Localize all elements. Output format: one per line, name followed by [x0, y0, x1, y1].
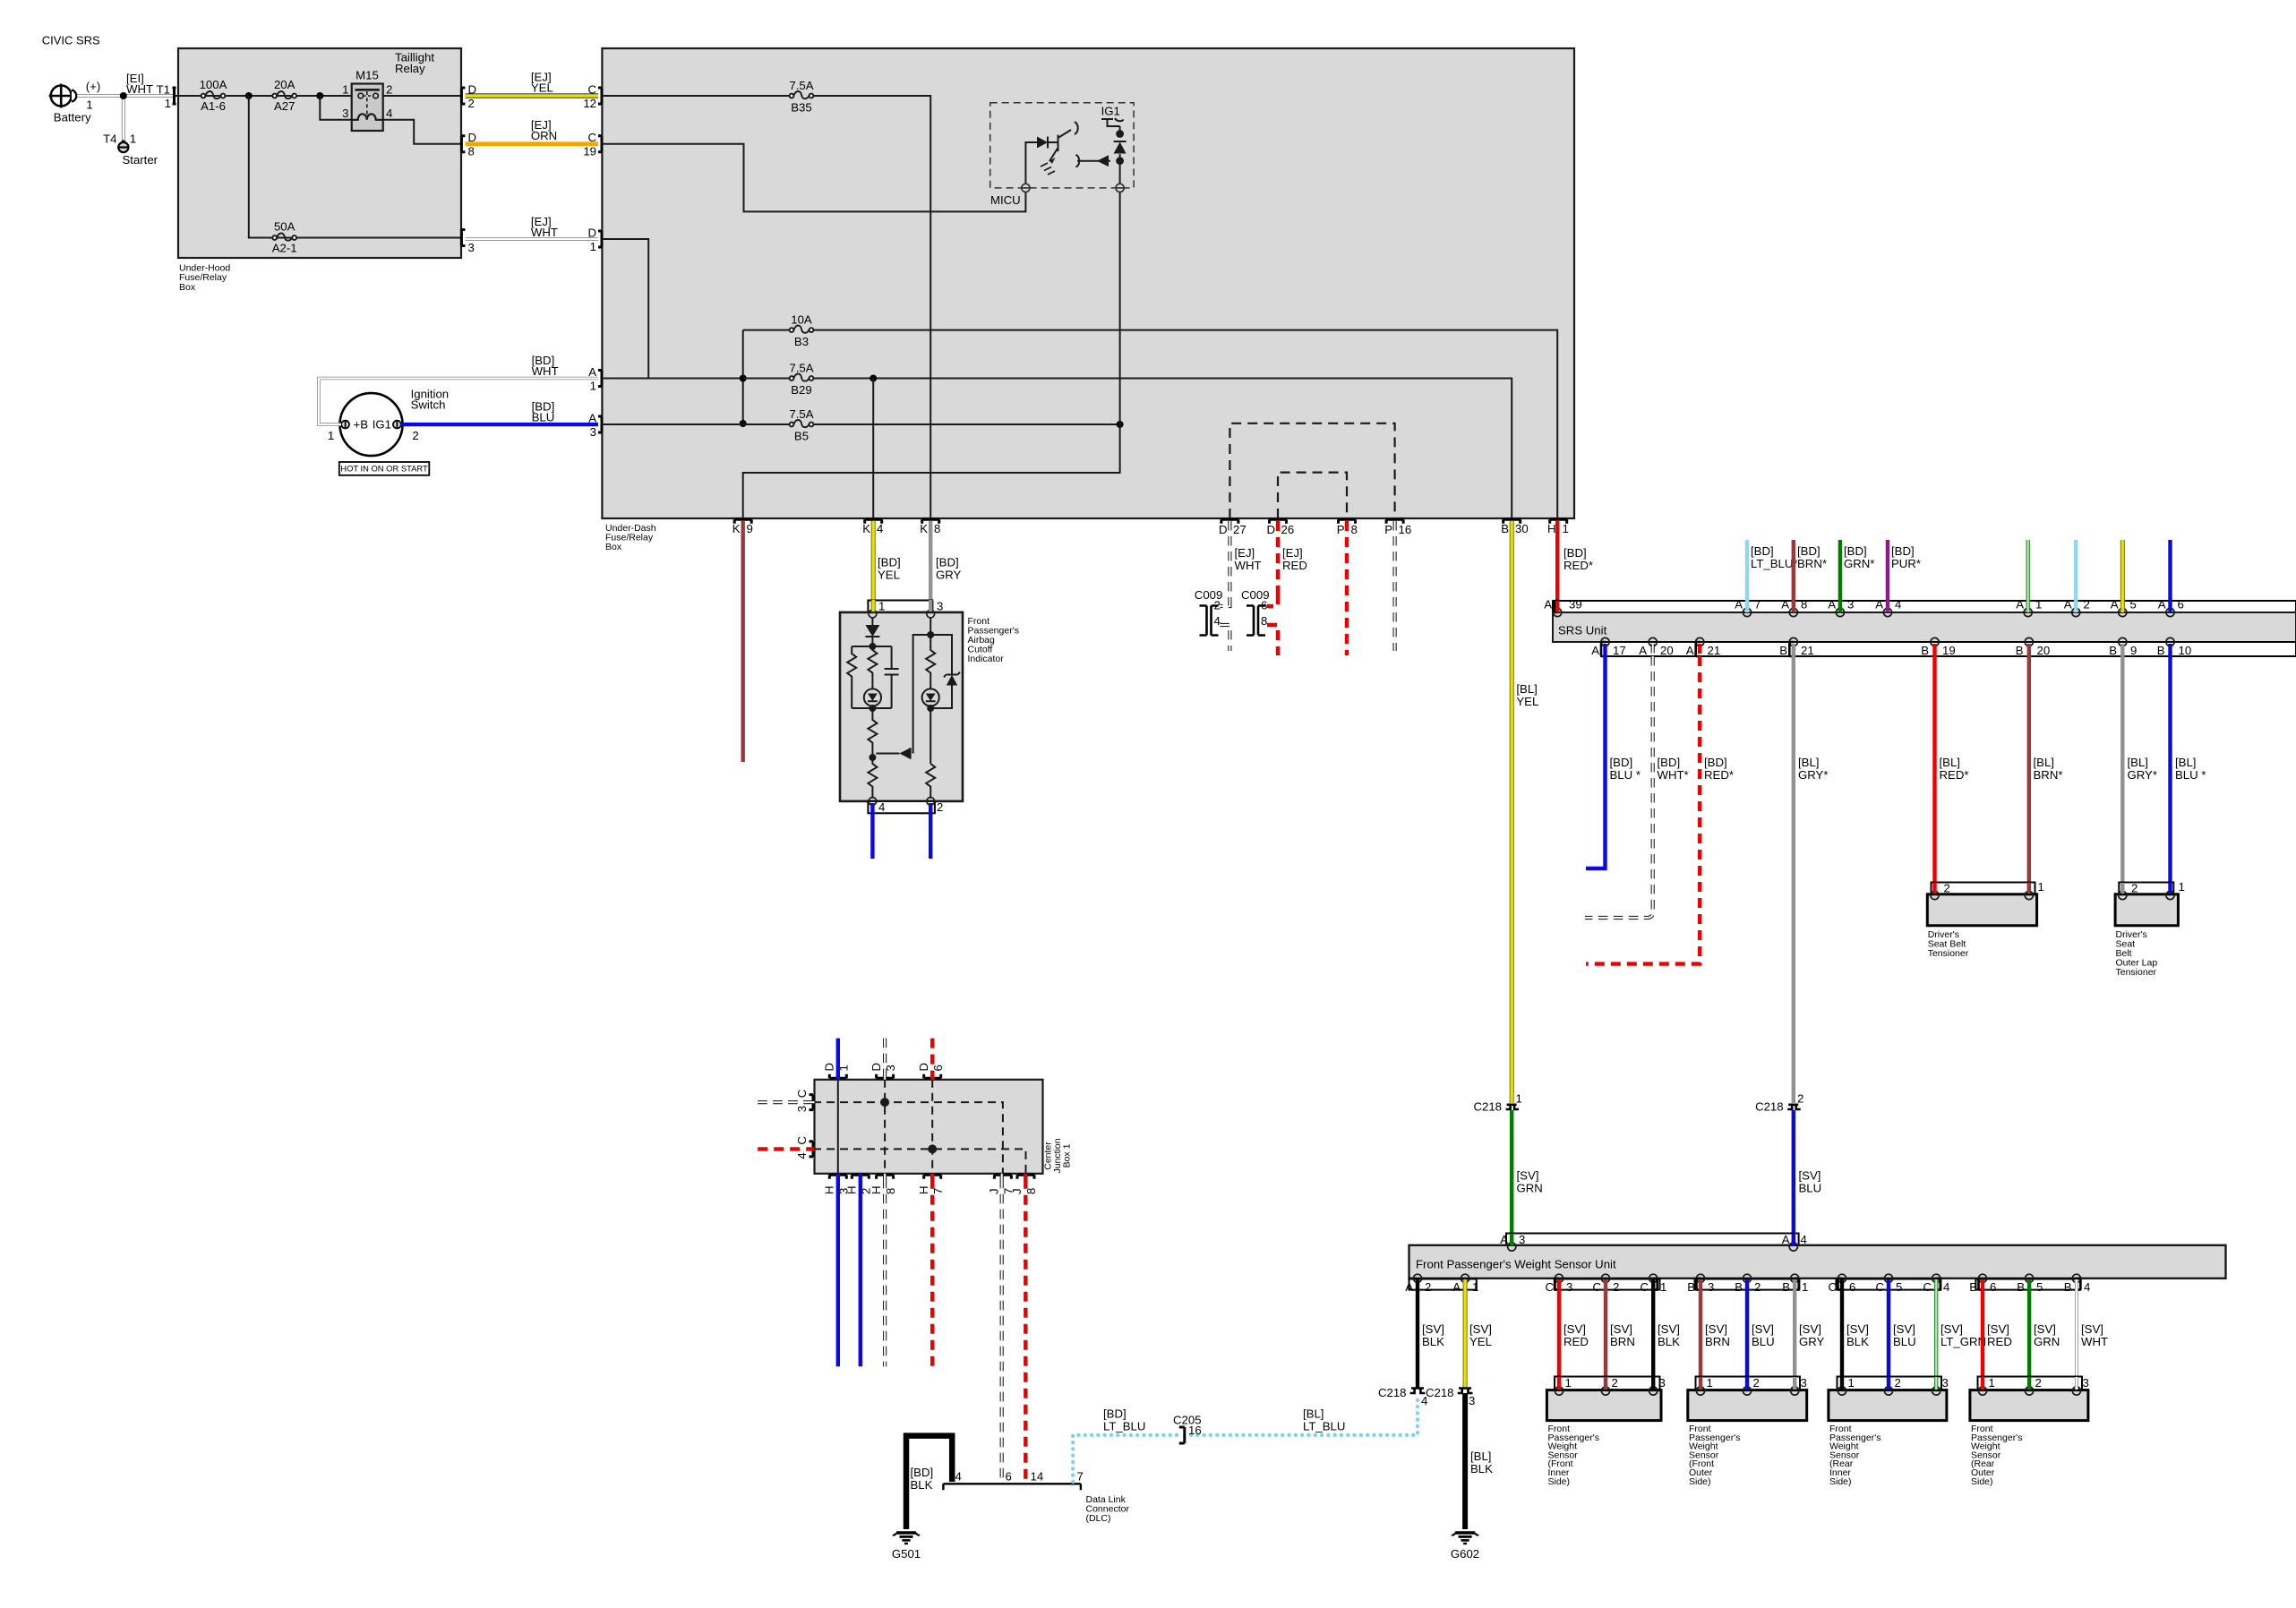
svg-text:C218: C218	[1473, 1099, 1502, 1113]
wire B4 [SV] WHT	[2075, 1290, 2078, 1390]
svg-text:[BD]: [BD]	[936, 556, 959, 569]
connector J8 (cjb bottom)	[1017, 1175, 1034, 1179]
pin C1	[1649, 1274, 1658, 1282]
svg-text:[SV]: [SV]	[1517, 1169, 1539, 1183]
cjb internal solid D1-H3	[837, 1080, 839, 1174]
node A1/B29 junction	[740, 375, 747, 382]
svg-text:2: 2	[468, 97, 475, 110]
wires through sensor strips	[1557, 1377, 1561, 1390]
svg-text:[BL]: [BL]	[2034, 756, 2054, 769]
svg-text:Battery: Battery	[54, 111, 91, 124]
svg-text:A: A	[1735, 598, 1743, 612]
wire A3 grn through strip	[1838, 601, 1842, 612]
wire A17 blue through SRS bottom strip	[1603, 644, 1606, 657]
svg-text:C: C	[1923, 1280, 1932, 1294]
svg-text:[BD]: [BD]	[1891, 544, 1915, 558]
svg-text:G602: G602	[1451, 1547, 1479, 1561]
svg-text:1: 1	[590, 380, 596, 393]
wsu bottom connector strip B6B5B4	[1975, 1279, 2080, 1290]
wire B3 row 10A to H1	[743, 330, 1557, 518]
wire D27 [EJ] WHT (hollow dash)	[1228, 521, 1231, 598]
fuse 7.5A B5	[790, 420, 814, 427]
svg-text:H: H	[917, 1185, 930, 1194]
svg-text:LT_BLU*: LT_BLU*	[1751, 557, 1798, 570]
connector C12 (under-dash in)	[598, 88, 602, 104]
svg-text:LT_BLU: LT_BLU	[1103, 1419, 1145, 1433]
svg-text:[SV]: [SV]	[1705, 1322, 1727, 1336]
svg-text:[BD]: [BD]	[878, 556, 901, 569]
svg-text:[BD]: [BD]	[1564, 546, 1587, 560]
svg-text:B: B	[2017, 1280, 2025, 1294]
driver's seat belt outer lap tensioner connector strip	[2119, 883, 2173, 894]
svg-text:[SV]: [SV]	[1610, 1322, 1632, 1336]
svg-text:B: B	[1969, 1280, 1977, 1294]
svg-text:[BD]: [BD]	[1751, 544, 1774, 558]
wire K8 gray into indicator strip	[929, 600, 932, 612]
svg-text:2: 2	[1753, 1376, 1760, 1390]
SRS unit body	[1553, 612, 2296, 642]
svg-text:C: C	[587, 131, 596, 144]
svg-text:A2-1: A2-1	[272, 242, 297, 255]
connector C4 (cjb left)	[810, 1142, 814, 1157]
svg-text:9: 9	[747, 522, 753, 535]
wire red dash J8 down to DLC pin14	[1024, 1179, 1027, 1482]
wire blue stub pin4	[870, 813, 874, 859]
svg-text:1: 1	[342, 83, 348, 97]
pin C6	[1838, 1274, 1846, 1282]
svg-text:[SV]: [SV]	[1799, 1169, 1821, 1183]
svg-text:Side): Side)	[1829, 1476, 1852, 1487]
svg-text:PUR*: PUR*	[1891, 557, 1921, 570]
svg-text:Side): Side)	[1548, 1476, 1571, 1487]
svg-text:P: P	[1384, 523, 1392, 536]
svg-text:27: 27	[1233, 523, 1247, 536]
svg-text:GRN: GRN	[1517, 1181, 1543, 1194]
wire A3 row 7.5A B5	[602, 423, 1120, 425]
wire B5 [SV] GRN	[2027, 1290, 2031, 1390]
svg-text:Box: Box	[179, 282, 196, 293]
svg-text:GRY: GRY	[936, 568, 962, 581]
svg-text:B: B	[1687, 1280, 1695, 1294]
driver's seat belt tensioner box	[1927, 894, 2036, 926]
svg-text:A: A	[2064, 598, 2072, 612]
svg-text:4: 4	[386, 107, 392, 120]
svg-text:2: 2	[386, 83, 392, 97]
svg-text:3: 3	[937, 600, 943, 613]
wire [SV] BLU C218-2 to WSU A4	[1792, 1110, 1795, 1236]
svg-text:6: 6	[931, 1065, 945, 1071]
wire A17 [BD] BLU* L-stub	[1586, 656, 1606, 868]
wire C19 to MICU pin	[602, 144, 1025, 212]
svg-text:3: 3	[1659, 1376, 1666, 1390]
svg-text:+B: +B	[354, 418, 369, 432]
svg-text:YEL: YEL	[531, 81, 553, 95]
wire [EJ] WHT D3 to D1	[466, 237, 599, 241]
svg-text:10: 10	[2179, 644, 2192, 657]
fuse 100A A1-6	[201, 91, 226, 98]
connector D6 (cjb top)	[924, 1074, 941, 1079]
svg-text:[EJ]: [EJ]	[1282, 546, 1303, 560]
wire A4 [BD] PUR* stub	[1886, 540, 1889, 601]
svg-text:B: B	[2157, 644, 2165, 657]
svg-text:[SV]: [SV]	[1564, 1322, 1586, 1336]
svg-text:A: A	[1781, 598, 1789, 612]
wire relay pin4 to D8	[383, 120, 461, 144]
svg-text:4: 4	[1214, 614, 1221, 628]
wire A5 yel through strip	[2120, 601, 2125, 612]
svg-text:1: 1	[590, 240, 596, 253]
wire A8 [BD] BRN* stub	[1792, 540, 1795, 601]
dashed jumper inner D26-P8	[1278, 473, 1347, 518]
svg-text:5: 5	[2130, 598, 2137, 612]
wire B9 gray through strip	[2120, 644, 2124, 657]
indicator internals right chain	[913, 618, 960, 799]
wire A6 blu through strip	[2168, 601, 2172, 612]
svg-text:8: 8	[468, 145, 475, 158]
pin A4 circle	[1789, 1243, 1797, 1251]
sensor 3 connector strip	[1838, 1377, 1942, 1390]
connector C19	[598, 136, 602, 152]
svg-text:3: 3	[1801, 1376, 1807, 1390]
svg-text:8: 8	[1351, 523, 1358, 536]
svg-text:4: 4	[955, 1470, 962, 1484]
svg-text:3: 3	[468, 241, 475, 254]
svg-text:3: 3	[1469, 1394, 1475, 1407]
wire A5 yellow stub	[2120, 540, 2125, 601]
svg-text:1: 1	[328, 429, 334, 442]
svg-text:A: A	[1875, 598, 1883, 612]
wire ignition IG1 to A3 [BD] BLU	[401, 423, 598, 426]
svg-text:10A: 10A	[791, 312, 812, 326]
wire [BD] BLK thick ground path	[906, 1436, 952, 1529]
svg-text:2: 2	[1612, 1376, 1618, 1390]
wire A2 light blue stub	[2074, 540, 2078, 601]
svg-text:K: K	[862, 522, 870, 535]
svg-text:B: B	[1921, 644, 1929, 657]
indicator internals left chain	[847, 618, 898, 799]
svg-text:[BL]: [BL]	[1798, 756, 1819, 769]
wire K9 [BD] RED* (maroon, dangling)	[741, 521, 745, 762]
front passenger's weight sensor (rear inner side) box	[1829, 1390, 1947, 1421]
indicator bottom connector strip	[868, 801, 935, 813]
fuse 7.5A B29	[790, 373, 814, 381]
wire A20 [BD] WHT* dashed L-stub	[1585, 656, 1653, 918]
driver's seat belt outer lap tensioner box	[2115, 894, 2178, 926]
wires through WSU bottom strips	[1416, 1279, 1419, 1291]
svg-text:B: B	[1501, 522, 1509, 535]
svg-text:4: 4	[1895, 598, 1901, 612]
pin A1	[1461, 1274, 1469, 1282]
svg-text:2: 2	[1425, 1280, 1431, 1294]
svg-text:BLU: BLU	[532, 410, 555, 423]
connector K4	[865, 519, 882, 524]
wire C12 to fuse B35 to K8	[602, 96, 930, 518]
wire overlay segments crossing connector strips	[809, 600, 2171, 1390]
svg-text:5: 5	[1896, 1280, 1902, 1294]
wsu bottom connector strip C3C2C1	[1555, 1279, 1660, 1290]
wire blue H2 down	[859, 1179, 862, 1367]
wire blue H3 down	[836, 1179, 840, 1367]
bottom pin A20	[1649, 637, 1657, 646]
pin A39 circle	[1554, 608, 1562, 616]
wire C1 [SV] BLK	[1651, 1290, 1655, 1390]
fuse 50A A2-1	[272, 233, 296, 240]
svg-text:7.5A: 7.5A	[789, 79, 813, 92]
svg-text:H: H	[870, 1185, 883, 1194]
under-dash fuse/relay box	[602, 48, 1574, 518]
svg-text:BLU: BLU	[1752, 1335, 1775, 1348]
wire P8 red dash (dangling)	[1345, 521, 1349, 655]
svg-text:A: A	[2111, 598, 2119, 612]
wire C6 [SV] BLK	[1840, 1290, 1844, 1390]
svg-text:[SV]: [SV]	[1893, 1322, 1915, 1336]
svg-text:RED: RED	[1282, 559, 1307, 572]
svg-text:[SV]: [SV]	[1940, 1322, 1963, 1336]
svg-text:A: A	[588, 365, 596, 379]
cjb internal dashed C3 to J7	[813, 1102, 1003, 1174]
svg-text:HOT IN ON OR START: HOT IN ON OR START	[340, 464, 428, 474]
svg-text:GRY*: GRY*	[1798, 768, 1828, 782]
SRS unit bottom connector strip	[1601, 642, 2296, 656]
wire white dash J7 down to DLC pin6	[1000, 1179, 1004, 1482]
svg-text:YEL: YEL	[1516, 695, 1538, 708]
svg-text:GRN: GRN	[2034, 1335, 2060, 1348]
cjb internal dashed C4 to J8	[813, 1149, 1026, 1173]
wire A21 red dash through strip	[1698, 644, 1701, 657]
node junction under-hood 1	[245, 92, 253, 99]
svg-text:2: 2	[1895, 1376, 1901, 1390]
node C3/D3 junction	[880, 1098, 889, 1107]
wire [SV] GRN C218-1 to WSU A3	[1510, 1110, 1513, 1236]
sensor 4 connector strip	[1978, 1377, 2083, 1390]
svg-text:8: 8	[884, 1188, 897, 1194]
wire H1 red through SRS top strip	[1555, 601, 1559, 612]
svg-text:6: 6	[1990, 1280, 1996, 1294]
wsu bottom connector strip A group	[1409, 1279, 1477, 1290]
svg-text:[BL]: [BL]	[1516, 682, 1537, 696]
svg-text:J: J	[988, 1188, 1001, 1194]
svg-text:WHT: WHT	[532, 364, 559, 378]
front passenger's weight sensor (front inner side) box	[1546, 1390, 1661, 1421]
wire B10 [BL] BLU* to outer lap tensioner	[2168, 656, 2172, 895]
svg-text:D: D	[917, 1063, 930, 1072]
svg-text:B: B	[2016, 644, 2024, 657]
svg-text:26: 26	[1281, 523, 1295, 536]
svg-text:50A: 50A	[274, 220, 296, 234]
MICU pin right	[1116, 184, 1124, 192]
svg-text:C: C	[1828, 1280, 1837, 1294]
connector D26	[1270, 519, 1287, 524]
svg-text:RED: RED	[1564, 1335, 1589, 1348]
svg-text:B3: B3	[794, 335, 809, 348]
svg-text:1: 1	[2035, 598, 2042, 612]
svg-text:CIVIC SRS: CIVIC SRS	[42, 34, 100, 47]
pin 3 circle	[927, 610, 935, 618]
bottom pin B10	[2166, 637, 2174, 646]
svg-text:BRN*: BRN*	[2034, 768, 2063, 782]
wire white dash H8 down	[883, 1179, 887, 1367]
svg-text:C218: C218	[1426, 1386, 1454, 1399]
svg-text:C: C	[1545, 1280, 1554, 1294]
svg-text:[BL]: [BL]	[1470, 1450, 1491, 1463]
front passenger's weight sensor (front outer side) box	[1688, 1390, 1807, 1421]
weight sensor unit top connector strip	[1506, 1234, 1799, 1245]
svg-text:[BD]: [BD]	[1704, 756, 1727, 769]
svg-text:6: 6	[2178, 598, 2184, 612]
wire B6 [SV] RED	[1981, 1290, 1984, 1390]
node junction under-hood 2	[316, 92, 323, 99]
svg-text:19: 19	[583, 145, 596, 158]
svg-text:14: 14	[1031, 1470, 1044, 1484]
wire K4 drop	[872, 379, 874, 519]
svg-text:SRS Unit: SRS Unit	[1558, 624, 1607, 637]
svg-text:C: C	[1875, 1280, 1884, 1294]
svg-text:[SV]: [SV]	[1752, 1322, 1774, 1336]
svg-text:BLK: BLK	[1846, 1335, 1869, 1348]
pin A2	[1413, 1274, 1421, 1282]
wire B9 gray into tensioner	[2120, 883, 2124, 894]
wire K4 yellow into indicator strip	[871, 600, 876, 612]
ignition switch	[340, 393, 403, 456]
airbag indicator top connector strip	[868, 601, 932, 612]
wsu bottom connector strip C6C5C4	[1837, 1279, 1941, 1290]
wire D1 down to A1 row	[602, 239, 648, 379]
wire blue stub into D1	[836, 1039, 840, 1074]
connector K9 (bottom)	[734, 519, 751, 524]
wire A4 pur through strip	[1886, 601, 1889, 612]
wire A7 [BD] LT_BLU* stub	[1745, 540, 1749, 601]
svg-text:Switch: Switch	[411, 398, 446, 412]
wire relay pin3 to bus	[320, 96, 351, 120]
cjb stubs reach box edge	[836, 1073, 840, 1080]
cjb internal dashed D6 to H7	[931, 1080, 933, 1174]
svg-text:T4: T4	[103, 132, 116, 145]
svg-text:1: 1	[1660, 1280, 1666, 1294]
node C4/D6 junction	[928, 1144, 937, 1153]
svg-text:MICU: MICU	[990, 193, 1021, 207]
svg-text:A27: A27	[274, 99, 295, 113]
svg-text:IG1: IG1	[1101, 105, 1120, 118]
svg-text:BLK: BLK	[911, 1478, 933, 1492]
wire B1 [SV] GRY	[1793, 1290, 1796, 1390]
svg-text:100A: 100A	[200, 78, 227, 91]
svg-text:1: 1	[1848, 1376, 1855, 1390]
svg-text:4: 4	[795, 1152, 809, 1159]
connector D3 (cjb top)	[877, 1074, 894, 1079]
svg-text:A: A	[1405, 1280, 1413, 1294]
svg-text:B: B	[1782, 1280, 1790, 1294]
svg-text:7.5A: 7.5A	[789, 361, 813, 374]
svg-text:8: 8	[1261, 614, 1267, 628]
svg-text:Box: Box	[605, 542, 622, 552]
front passenger's airbag cutoff indicator box	[840, 612, 963, 801]
wire [BL] BLK C218-3 to G602	[1462, 1393, 1468, 1529]
svg-text:1: 1	[1563, 522, 1569, 535]
svg-text:D: D	[1219, 523, 1228, 536]
wire C4 [SV] LT_GRN	[1934, 1290, 1938, 1390]
svg-text:[BD]: [BD]	[911, 1466, 934, 1479]
svg-text:Tensioner: Tensioner	[2116, 967, 2157, 978]
svg-text:(DLC): (DLC)	[1086, 1513, 1111, 1524]
pin B5	[2026, 1274, 2034, 1282]
pin 2 circle	[927, 798, 935, 806]
wire B3 [SV] BRN	[1699, 1290, 1702, 1390]
svg-text:[BL]: [BL]	[2175, 756, 2196, 769]
svg-text:J: J	[1010, 1188, 1024, 1194]
wire white dash stub into C3	[758, 1100, 809, 1104]
svg-text:20A: 20A	[274, 78, 296, 91]
wire B10 blue into tensioner	[2168, 883, 2172, 894]
pin 1 circle	[869, 610, 877, 618]
svg-text:BLU: BLU	[1893, 1335, 1916, 1348]
node B29/K4 junction	[870, 375, 877, 382]
wire green A3 through WSU strip	[1510, 1234, 1513, 1245]
svg-text:A: A	[2016, 598, 2024, 612]
wire A3 [BD] GRN* stub	[1838, 540, 1842, 601]
svg-text:Side): Side)	[1689, 1476, 1711, 1487]
connector D8	[461, 136, 465, 152]
svg-text:2: 2	[2084, 598, 2090, 612]
svg-text:B: B	[1779, 644, 1787, 657]
svg-text:3: 3	[1708, 1280, 1714, 1294]
svg-text:YEL: YEL	[878, 568, 900, 581]
wire H1 [BD] RED* to SRS A39	[1555, 521, 1559, 612]
pin B3	[1696, 1274, 1704, 1282]
svg-text:1: 1	[2038, 880, 2044, 894]
svg-text:GRY*: GRY*	[2128, 768, 2157, 782]
svg-text:BRN: BRN	[1705, 1335, 1730, 1348]
front passenger's weight sensor (rear outer side) box	[1970, 1390, 2088, 1421]
svg-text:H: H	[1547, 522, 1556, 535]
connector H1	[1550, 519, 1567, 524]
svg-text:16: 16	[1188, 1424, 1202, 1437]
svg-text:BLK: BLK	[1422, 1335, 1444, 1348]
connector C3 (cjb left)	[810, 1095, 814, 1110]
wire B9 [BL] GRY* to outer lap tensioner	[2120, 656, 2124, 895]
bottom pin B19	[1931, 637, 1939, 646]
connector H7 (cjb bottom)	[924, 1175, 941, 1179]
wire A2 [SV] BLK	[1416, 1290, 1419, 1388]
svg-text:Starter: Starter	[123, 153, 158, 167]
svg-text:B: B	[2064, 1280, 2072, 1294]
svg-text:K: K	[920, 522, 928, 535]
wire B29 row 7.5A to B30	[743, 379, 1512, 519]
svg-text:A: A	[1452, 1280, 1461, 1294]
connector H2 (cjb bottom)	[852, 1175, 869, 1179]
svg-text:A: A	[588, 412, 596, 425]
svg-text:B35: B35	[791, 101, 811, 115]
svg-text:2: 2	[1613, 1280, 1619, 1294]
svg-text:1: 1	[86, 98, 92, 112]
wire blue A4 through WSU strip	[1792, 1234, 1795, 1245]
svg-text:Box 1: Box 1	[1062, 1143, 1073, 1168]
svg-text:7: 7	[1077, 1470, 1084, 1484]
svg-text:3: 3	[795, 1106, 809, 1112]
wire [EJ] YEL D2 to C12	[466, 93, 599, 98]
fuse 10A B3	[790, 326, 814, 333]
svg-text:RED*: RED*	[1940, 768, 1969, 782]
svg-text:D: D	[870, 1063, 883, 1072]
svg-text:39: 39	[1569, 598, 1582, 612]
svg-text:WHT: WHT	[531, 226, 558, 239]
svg-text:4: 4	[2084, 1280, 2090, 1294]
svg-text:WHT: WHT	[2081, 1335, 2108, 1348]
svg-text:BLK: BLK	[1658, 1335, 1680, 1348]
pin C5	[1884, 1274, 1892, 1282]
svg-text:IG1: IG1	[373, 418, 391, 432]
wire LT_BLU dotted DLC7 to C205 to C218-4	[1073, 1435, 1178, 1482]
connector P8	[1339, 519, 1356, 524]
